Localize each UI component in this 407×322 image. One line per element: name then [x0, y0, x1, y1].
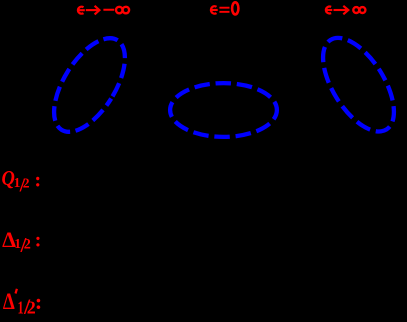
label Delta_{1/2}: — [2, 227, 41, 257]
svg-text:1: 1 — [18, 298, 24, 318]
label "epsilon = 0" — [211, 2, 238, 14]
svg-text:Δ: Δ — [3, 288, 15, 314]
ellipse 1 (state at epsilon -> -infinity, tilted top-right) — [40, 27, 139, 144]
epsilon — [78, 7, 84, 14]
prime — [16, 289, 17, 294]
infinity — [116, 7, 123, 14]
equals — [219, 7, 229, 9]
epsilon — [211, 6, 217, 13]
arrow — [86, 9, 99, 11]
label Q_{1/2}: — [2, 167, 42, 197]
svg-text::: : — [34, 170, 41, 192]
infinity — [353, 7, 359, 13]
svg-text::: : — [35, 229, 42, 251]
minus — [103, 9, 114, 11]
label Delta'_{1/2}: — [3, 288, 42, 319]
epsilon — [326, 7, 331, 14]
arrow — [334, 9, 348, 11]
svg-text:2: 2 — [23, 176, 30, 191]
zero — [232, 2, 238, 14]
svg-text::: : — [35, 289, 43, 314]
label "epsilon -> infinity" — [326, 6, 366, 15]
svg-text:2: 2 — [24, 237, 31, 253]
label "epsilon -> -infinity" — [78, 6, 129, 15]
ellipse 3 (state at epsilon -> +infinity, tilted top-left) — [309, 26, 407, 143]
ellipse 2 (state at epsilon = 0, horizontal) — [170, 83, 277, 137]
